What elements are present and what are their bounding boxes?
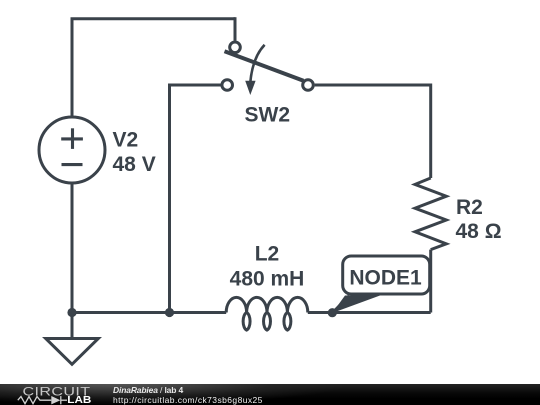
junction dot at NODE1 [328,308,337,317]
logo resistor zigzag [18,397,52,404]
node NODE1 callout [332,256,430,314]
logo diode symbol [51,396,60,404]
svg-text:48 Ω: 48 Ω [456,220,502,243]
inductor L2 [226,297,308,330]
svg-text:LAB: LAB [67,395,91,405]
voltage source V2 [39,117,105,183]
wire ground stem [71,313,74,339]
switch SW2 [222,42,313,95]
wire right vertical to resistor top [429,84,432,179]
svg-text:V2: V2 [113,128,139,151]
wire drop to switch top terminal [234,17,237,40]
wire bottom left segment (node to inductor) [72,311,226,314]
footer title text [113,385,183,395]
NODE1 callout tail [332,296,380,314]
wire V2 bottom vertical [71,183,74,313]
junction dot at switch branch node [165,308,174,317]
SW2 top terminal [230,42,241,53]
svg-text:R2: R2 [456,196,483,219]
svg-text:SW2: SW2 [245,103,291,126]
wire switch right terminal horizontal [315,84,431,87]
wire V2 top vertical [71,19,74,117]
SW2 actuation arc arrow [250,45,264,83]
V2 plus mark [71,128,74,149]
svg-text:L2: L2 [255,243,280,266]
svg-text:48 V: 48 V [113,153,156,176]
wire resistor bottom vertical [429,250,432,313]
SW2 blade [225,51,304,80]
svg-text:480 mH: 480 mH [230,268,305,291]
junction dot at V2/ground node [67,308,76,317]
V2 minus mark [62,163,83,166]
ground [46,339,99,365]
footer CircuitLab logo [0,384,110,405]
footer url text [113,395,263,405]
V2 circle body [39,117,105,183]
wire bottom right segment (inductor to resistor leg) [308,311,431,314]
resistor R2 [415,178,446,250]
wire top horizontal [71,17,236,20]
SW2 left terminal [222,80,233,91]
wire switch branch vertical [168,84,171,313]
svg-text:NODE1: NODE1 [349,267,422,290]
SW2 right terminal [303,80,314,91]
footer bar [0,384,540,405]
wire switch left terminal horizontal [170,84,221,87]
NODE1 callout box [343,256,430,294]
